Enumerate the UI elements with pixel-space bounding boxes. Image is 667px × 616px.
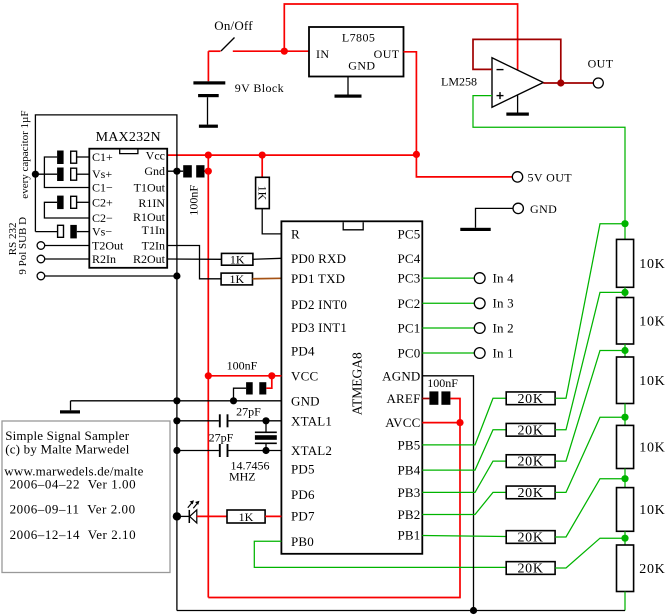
wire ladder bottom to ground bbox=[624, 592, 626, 611]
wire C1 to C1- pin bbox=[44, 157, 89, 188]
svg-text:GND: GND bbox=[348, 59, 375, 73]
junction ground at LED bbox=[173, 512, 181, 520]
wire C6 to ground bbox=[234, 388, 247, 401]
svg-text:Vs+: Vs+ bbox=[92, 167, 112, 181]
ATMEGA8 right pin labels bbox=[382, 227, 421, 543]
wire AGND to ground bbox=[422, 376, 473, 611]
wire ground to C8 bbox=[177, 420, 219, 422]
wire R2 to PD0 bbox=[253, 258, 282, 259]
wire C1 to C1+ pin bbox=[77, 156, 90, 158]
junction XTAL2 at crystal bbox=[262, 447, 269, 454]
junction ground at C8 bbox=[173, 417, 180, 424]
wire C8 to XTAL1 bbox=[229, 420, 282, 422]
wire ground net vertical left of schematic bbox=[35, 115, 177, 611]
junction ground at C6 bbox=[230, 397, 237, 404]
svg-text:In 2: In 2 bbox=[493, 320, 514, 335]
wire R6 to ladder node bbox=[555, 292, 625, 429]
svg-text:R2In: R2In bbox=[92, 252, 116, 266]
svg-text:1K: 1K bbox=[255, 186, 269, 201]
junction AGND at bottom ground bbox=[470, 607, 477, 614]
svg-text:MHZ: MHZ bbox=[229, 470, 256, 484]
terminal In 4 bbox=[474, 273, 485, 284]
svg-text:PC1: PC1 bbox=[397, 321, 420, 336]
junction 5V at C5 bbox=[205, 168, 212, 175]
svg-text:10K: 10K bbox=[639, 314, 665, 329]
svg-text:9V Block: 9V Block bbox=[235, 81, 284, 95]
junction ladder node bbox=[621, 347, 628, 354]
wire LED to R4 bbox=[197, 515, 227, 517]
wire PB pin to R8 bbox=[422, 492, 506, 514]
terminal In 3 bbox=[474, 298, 485, 309]
junction ladder node bbox=[621, 289, 628, 296]
wire C6 to VCC net bbox=[266, 376, 272, 388]
wire ladder segment bbox=[624, 531, 626, 545]
resistor R12 10K bbox=[617, 298, 634, 345]
op-amp U2 LM258 bbox=[492, 58, 543, 107]
svg-text:PB5: PB5 bbox=[397, 437, 420, 452]
ground op-amp bbox=[506, 113, 528, 116]
resistor R3 1K bbox=[221, 273, 252, 285]
junction ladder node bbox=[621, 535, 628, 542]
connector X1 ground pin bbox=[37, 272, 45, 280]
wire C4 to Vs- pin bbox=[77, 231, 90, 233]
svg-text:R1Out: R1Out bbox=[133, 210, 166, 224]
svg-text:AGND: AGND bbox=[382, 368, 420, 383]
resistor R5 20K bbox=[506, 392, 555, 405]
wire PC pin to In 4 terminal bbox=[422, 277, 474, 279]
wire R2Out to R2 bbox=[167, 258, 222, 260]
junction AVCC node bbox=[456, 419, 463, 426]
wire R4 to PD7 bbox=[265, 515, 281, 517]
svg-text:PC0: PC0 bbox=[397, 346, 420, 361]
IC U4 ATMEGA8 bbox=[281, 221, 422, 554]
svg-text:27pF: 27pF bbox=[236, 405, 261, 419]
junction 5V at regulator output bbox=[413, 151, 420, 158]
junction connector ground bbox=[173, 272, 180, 279]
svg-text:PD5: PD5 bbox=[291, 462, 315, 477]
svg-text:20K: 20K bbox=[639, 562, 665, 577]
wire ladder segment bbox=[624, 469, 626, 488]
svg-text:27pF: 27pF bbox=[209, 431, 234, 445]
junction ground loop C2 bbox=[32, 171, 39, 178]
wire ladder segment bbox=[624, 344, 626, 357]
junction 5V at vcc drop wire bbox=[205, 152, 212, 159]
wire PB1 to R9 bbox=[422, 536, 506, 537]
svg-text:PC3: PC3 bbox=[397, 271, 420, 286]
svg-text:PD6: PD6 bbox=[291, 487, 315, 502]
wire ground to LED bbox=[177, 515, 189, 517]
svg-text:C2+: C2+ bbox=[92, 195, 113, 209]
svg-text:9 Pol SUB D: 9 Pol SUB D bbox=[17, 217, 29, 275]
svg-text:20K: 20K bbox=[517, 562, 543, 577]
junction ground vertical at GND wire bbox=[173, 397, 180, 404]
wire ladder segment bbox=[624, 287, 626, 297]
svg-text:20K: 20K bbox=[517, 531, 543, 546]
svg-text:T1In: T1In bbox=[142, 223, 165, 237]
svg-text:5V OUT: 5V OUT bbox=[528, 170, 573, 184]
wire op-amp gnd pin bbox=[517, 95, 519, 112]
capacitor C3 1uF bbox=[57, 196, 77, 210]
terminal 5V OUT bbox=[512, 172, 522, 182]
capacitor C1 1uF bbox=[57, 151, 77, 165]
ground L7805 bbox=[335, 95, 362, 98]
wire connector to R2In bbox=[45, 258, 90, 260]
terminal GND bbox=[513, 203, 523, 213]
junction 5V at VCC branch bbox=[205, 372, 212, 379]
junction ladder node bbox=[621, 220, 628, 227]
wire C2 to ground loop bbox=[35, 173, 57, 175]
MAX232N right pin labels bbox=[133, 149, 166, 267]
svg-text:PD3 INT1: PD3 INT1 bbox=[291, 320, 347, 335]
svg-text:1K: 1K bbox=[229, 272, 244, 286]
svg-text:2006–12–14 Ver 2.10: 2006–12–14 Ver 2.10 bbox=[10, 527, 137, 542]
svg-text:PC2: PC2 bbox=[397, 296, 420, 311]
capacitor C9 27pF bbox=[220, 444, 228, 457]
svg-text:PD7: PD7 bbox=[291, 509, 315, 524]
wire 5V rail horizontal bbox=[167, 154, 417, 156]
capacitor C6 100nF bbox=[246, 382, 266, 394]
svg-text:VCC: VCC bbox=[291, 368, 318, 383]
svg-text:2006–04–22 Ver 1.00: 2006–04–22 Ver 1.00 bbox=[10, 477, 137, 492]
wire op-amp output to OUT terminal bbox=[543, 82, 593, 84]
capacitor C4 1uF bbox=[58, 225, 77, 239]
svg-text:AREF: AREF bbox=[386, 391, 420, 406]
wire AVCC to 5V bbox=[422, 422, 460, 424]
wire 9V rail to op-amp V+ pin bbox=[284, 4, 517, 70]
version info box bbox=[2, 421, 170, 573]
LED D1 bbox=[188, 500, 200, 523]
wire L7805 GND pin down bbox=[347, 77, 349, 95]
wire feedback output to inverting input bbox=[473, 39, 561, 83]
notch MAX232N bbox=[120, 150, 138, 154]
IC U3 MAX232N bbox=[89, 149, 167, 268]
wire R10 to ladder node bbox=[555, 538, 625, 568]
svg-text:20K: 20K bbox=[517, 392, 543, 407]
svg-text:20K: 20K bbox=[517, 486, 543, 501]
svg-text:XTAL2: XTAL2 bbox=[291, 443, 332, 458]
wire PB pin to R5 bbox=[422, 398, 506, 445]
switch S1 On/Off bbox=[221, 38, 235, 52]
wire connector to T2Out bbox=[45, 245, 90, 247]
svg-text:PD0 RXD: PD0 RXD bbox=[291, 251, 346, 266]
junction XTAL1 at crystal bbox=[262, 417, 269, 424]
resistor R10 20K bbox=[506, 562, 555, 575]
resistor R15 10K bbox=[617, 488, 634, 532]
svg-text:1K: 1K bbox=[239, 510, 254, 524]
wire C4 to ground loop bbox=[35, 231, 57, 233]
svg-text:R: R bbox=[291, 227, 300, 242]
svg-text:T2In: T2In bbox=[142, 239, 165, 253]
junction ladder node bbox=[621, 475, 628, 482]
wire PB pin to R6 bbox=[422, 430, 506, 470]
resistor R11 10K bbox=[617, 239, 634, 287]
svg-text:C1−: C1− bbox=[92, 181, 113, 195]
svg-text:XTAL1: XTAL1 bbox=[291, 414, 332, 429]
wire PC pin to In 1 terminal bbox=[422, 352, 474, 354]
wire switch to L7805 IN with junction bbox=[233, 50, 309, 52]
wire bottom ground rail bbox=[177, 610, 625, 612]
wire L7805 OUT to 5V rail bbox=[404, 52, 417, 155]
svg-text:2006–09–11 Ver 2.00: 2006–09–11 Ver 2.00 bbox=[10, 502, 136, 517]
svg-text:MAX232N: MAX232N bbox=[96, 130, 161, 145]
wire connector ground bbox=[45, 275, 177, 277]
capacitor C2 1uF bbox=[57, 168, 77, 182]
wire C5 to 5V drop bbox=[205, 170, 209, 172]
svg-text:PD4: PD4 bbox=[291, 344, 315, 359]
terminal In 1 bbox=[474, 348, 485, 359]
wire R8 to ladder node bbox=[555, 417, 625, 492]
svg-text:100nF: 100nF bbox=[186, 185, 200, 216]
svg-text:20K: 20K bbox=[517, 423, 543, 438]
svg-text:On/Off: On/Off bbox=[214, 18, 253, 33]
svg-text:ATMEGA8: ATMEGA8 bbox=[349, 352, 364, 415]
wire R7 to ladder node bbox=[555, 351, 625, 462]
svg-text:PC5: PC5 bbox=[397, 227, 420, 242]
svg-text:Vcc: Vcc bbox=[146, 149, 165, 163]
wire battery to switch bbox=[208, 50, 220, 52]
wire 5V bottom run to AVCC bbox=[208, 423, 460, 598]
wire R9 to ladder node bbox=[555, 479, 625, 537]
svg-text:100nF: 100nF bbox=[427, 376, 458, 390]
wire PC pin to In 3 terminal bbox=[422, 302, 474, 304]
ground GND terminal bbox=[460, 228, 490, 231]
svg-text:GND: GND bbox=[530, 202, 557, 216]
svg-text:T2Out: T2Out bbox=[92, 239, 124, 253]
battery BAT1 9V Block bbox=[193, 51, 225, 124]
svg-text:PD2 INT0: PD2 INT0 bbox=[291, 297, 347, 312]
ground battery bbox=[199, 125, 218, 128]
svg-text:10K: 10K bbox=[639, 441, 665, 456]
svg-text:LM258: LM258 bbox=[441, 75, 477, 89]
svg-text:10K: 10K bbox=[639, 503, 665, 518]
svg-text:C2−: C2− bbox=[92, 211, 113, 225]
svg-text:Gnd: Gnd bbox=[144, 164, 165, 178]
svg-text:T1Out: T1Out bbox=[134, 181, 166, 195]
wire C2 to Vs+ pin bbox=[77, 173, 90, 175]
resistor R4 1K bbox=[227, 510, 265, 523]
svg-text:PB4: PB4 bbox=[397, 463, 420, 478]
svg-text:R1IN: R1IN bbox=[138, 196, 165, 210]
wire ladder segment bbox=[624, 404, 626, 426]
wire AREF to C7 bbox=[422, 398, 429, 400]
svg-text:R2Out: R2Out bbox=[133, 252, 166, 266]
resistor R16 20K bbox=[617, 545, 634, 592]
svg-text:Vs−: Vs− bbox=[92, 225, 112, 239]
wire C9 to XTAL2 bbox=[229, 450, 282, 452]
svg-text:PB0: PB0 bbox=[291, 534, 314, 549]
ground near version box bbox=[60, 410, 80, 413]
svg-text:PB2: PB2 bbox=[397, 507, 420, 522]
junction 9V node bbox=[281, 48, 288, 55]
svg-text:AVCC: AVCC bbox=[385, 415, 420, 430]
junction VCC at C6 bbox=[268, 372, 275, 379]
wire PB0 to R10 bbox=[254, 541, 506, 567]
wire ground to C9 bbox=[177, 450, 219, 452]
svg-text:10K: 10K bbox=[639, 257, 665, 272]
capacitor C7 100nF bbox=[429, 391, 450, 404]
connector X1 pin R2In bbox=[37, 255, 45, 263]
voltage regulator U1 L7805 bbox=[309, 27, 404, 77]
resistor R1 1K bbox=[256, 177, 270, 208]
svg-text:PC4: PC4 bbox=[397, 251, 420, 266]
wire R1 to reset pin bbox=[262, 209, 281, 234]
wire 5V to VCC pin bbox=[208, 375, 281, 377]
junction ground at C9 bbox=[173, 447, 180, 454]
wire PB pin to R7 bbox=[422, 461, 506, 492]
wire 5V to R1 bbox=[261, 155, 263, 177]
resistor R13 10K bbox=[617, 357, 634, 404]
svg-text:PB1: PB1 bbox=[397, 528, 420, 543]
junction ladder node bbox=[621, 414, 628, 421]
wire C7 to AVCC net bbox=[450, 399, 460, 423]
junction Gnd net at C5 bbox=[173, 168, 180, 175]
terminal OUT bbox=[593, 78, 603, 88]
svg-text:1K: 1K bbox=[230, 252, 245, 266]
svg-text:every capacitor 1µF: every capacitor 1µF bbox=[19, 110, 31, 198]
svg-text:OUT: OUT bbox=[588, 57, 614, 71]
resistor R2 1K bbox=[222, 253, 253, 265]
svg-text:In 1: In 1 bbox=[493, 345, 514, 360]
svg-text:PB3: PB3 bbox=[397, 485, 420, 500]
svg-text:PD1 TXD: PD1 TXD bbox=[291, 271, 345, 286]
wire GND pin to ground symbol bbox=[71, 400, 282, 402]
wire PC pin to In 2 terminal bbox=[422, 327, 474, 329]
crystal Q1 14.7456 MHZ bbox=[255, 421, 277, 451]
wire T2In to R3 bbox=[167, 246, 221, 279]
svg-text:OUT: OUT bbox=[374, 47, 400, 61]
wire 5V vertical drop bbox=[207, 155, 209, 597]
capacitor C8 27pF bbox=[220, 414, 228, 427]
notch ATMEGA8 bbox=[343, 222, 363, 230]
junction op-amp output bbox=[557, 79, 564, 86]
svg-text:100nF: 100nF bbox=[227, 358, 258, 372]
svg-text:20K: 20K bbox=[517, 455, 543, 470]
wire Gnd pin to C5 bbox=[167, 170, 183, 172]
resistor R7 20K bbox=[506, 455, 555, 468]
svg-text:L7805: L7805 bbox=[342, 30, 375, 44]
capacitor C5 100nF bbox=[183, 165, 204, 177]
wire C3 to C2+ pin bbox=[77, 201, 90, 203]
svg-text:IN: IN bbox=[316, 47, 329, 61]
wire R5 to ladder node bbox=[555, 224, 625, 399]
connector X1 pin T2Out bbox=[37, 242, 45, 250]
svg-text:GND: GND bbox=[291, 393, 320, 408]
wire op-amp non-inverting input to DAC ladder bbox=[473, 96, 625, 240]
resistor R6 20K bbox=[506, 423, 555, 436]
svg-text:C1+: C1+ bbox=[92, 150, 113, 164]
wire GND terminal down bbox=[476, 208, 514, 227]
svg-text:10K: 10K bbox=[639, 374, 665, 389]
wire C3 to C2- pin bbox=[44, 202, 89, 218]
wire ground symbol stem bbox=[70, 401, 72, 411]
wire 5V to 5V OUT terminal bbox=[416, 154, 512, 177]
svg-text:In 4: In 4 bbox=[493, 271, 515, 286]
svg-text:In 3: In 3 bbox=[493, 296, 514, 311]
wire R3 to PD1 TXD bbox=[253, 277, 282, 280]
junction 5V at pullup resistor bbox=[259, 152, 266, 159]
MAX232N left pin labels bbox=[92, 150, 124, 266]
terminal In 2 bbox=[474, 323, 485, 334]
svg-text:(c) by Malte Marwedel: (c) by Malte Marwedel bbox=[5, 442, 130, 457]
resistor R14 10K bbox=[617, 425, 634, 468]
resistor R9 20K bbox=[506, 531, 555, 544]
resistor R8 20K bbox=[506, 486, 555, 499]
ATMEGA8 left pin labels bbox=[291, 227, 347, 549]
